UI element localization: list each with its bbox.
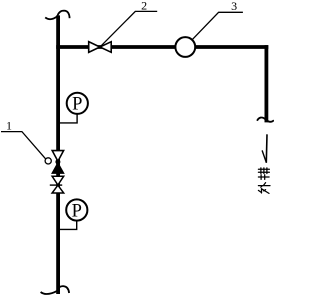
flow meter U3 (circle on horizontal pipe) bbox=[175, 37, 195, 57]
text 外排 (rotated 90deg CCW): character 排 bbox=[258, 168, 269, 180]
svg-text:1: 1 bbox=[6, 119, 12, 133]
svg-text:P: P bbox=[72, 95, 82, 115]
leader line for label 3 bbox=[192, 12, 243, 39]
pipe break (bottom of left pipe) bbox=[41, 286, 70, 294]
svg-text:3: 3 bbox=[231, 0, 237, 13]
pressure gauge P (upper) bbox=[60, 93, 88, 123]
valve (globe valve below valve 1) bbox=[50, 176, 64, 193]
pipe break (top of left pipe) bbox=[45, 11, 69, 20]
valve 2 (gate valve on horizontal pipe) bbox=[89, 42, 112, 53]
pipe break (end of right pipe) bbox=[257, 117, 274, 121]
pressure gauge P (lower) bbox=[60, 199, 88, 229]
wire: right vertical pipe bbox=[264, 45, 268, 122]
leader line for label 1 with open-circle terminator bbox=[1, 132, 46, 160]
wire: left vertical pipe bbox=[56, 15, 60, 294]
text 外排 (rotated 90deg CCW): character 外 bbox=[258, 183, 270, 194]
svg-text:P: P bbox=[72, 201, 82, 221]
valve 1 (control valve, half-filled) bbox=[52, 151, 64, 174]
leader line for label 2 bbox=[100, 11, 157, 46]
wire: horizontal pipe bbox=[56, 45, 268, 49]
svg-text:2: 2 bbox=[141, 0, 147, 12]
discharge arrow (points down) bbox=[265, 134, 268, 162]
